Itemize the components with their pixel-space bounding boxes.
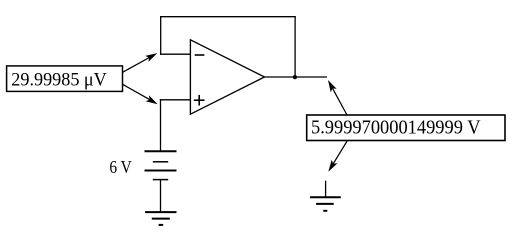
annotation box (output voltage): [307, 115, 505, 141]
leader arrow (input label to inverting input): [123, 53, 158, 72]
wire (inverting input): [160, 53, 190, 55]
leader arrow (input label to noninverting input): [123, 84, 158, 104]
op-amp U1: [190, 40, 264, 114]
wire (battery to ground): [160, 180, 162, 213]
wire (feedback top horizontal): [160, 16, 296, 18]
wire (op-amp output): [265, 76, 328, 78]
annotation box (input voltage): [7, 66, 123, 92]
leader arrow (output label to output wire): [328, 80, 347, 115]
svg-text:29.99985 μV: 29.99985 μV: [11, 69, 107, 90]
wire (noninverting input down to battery): [160, 99, 162, 151]
node (output junction dot): [293, 75, 297, 79]
wire (noninverting input): [160, 99, 191, 101]
ground (right): [310, 197, 341, 211]
wire (feedback right vertical): [294, 16, 296, 77]
wire (feedback left vertical): [160, 16, 162, 55]
op-amp inverting pin label (minus): [195, 54, 205, 56]
leader arrow (output label to ground): [328, 141, 347, 172]
battery V1 (6 V source): [145, 151, 177, 179]
svg-text:6 V: 6 V: [109, 157, 132, 177]
wire (right ground stub): [325, 181, 327, 198]
ground (left): [145, 212, 176, 225]
svg-text:5.999970000149999 V: 5.999970000149999 V: [311, 117, 481, 139]
op-amp noninverting pin label (plus): [194, 95, 205, 106]
